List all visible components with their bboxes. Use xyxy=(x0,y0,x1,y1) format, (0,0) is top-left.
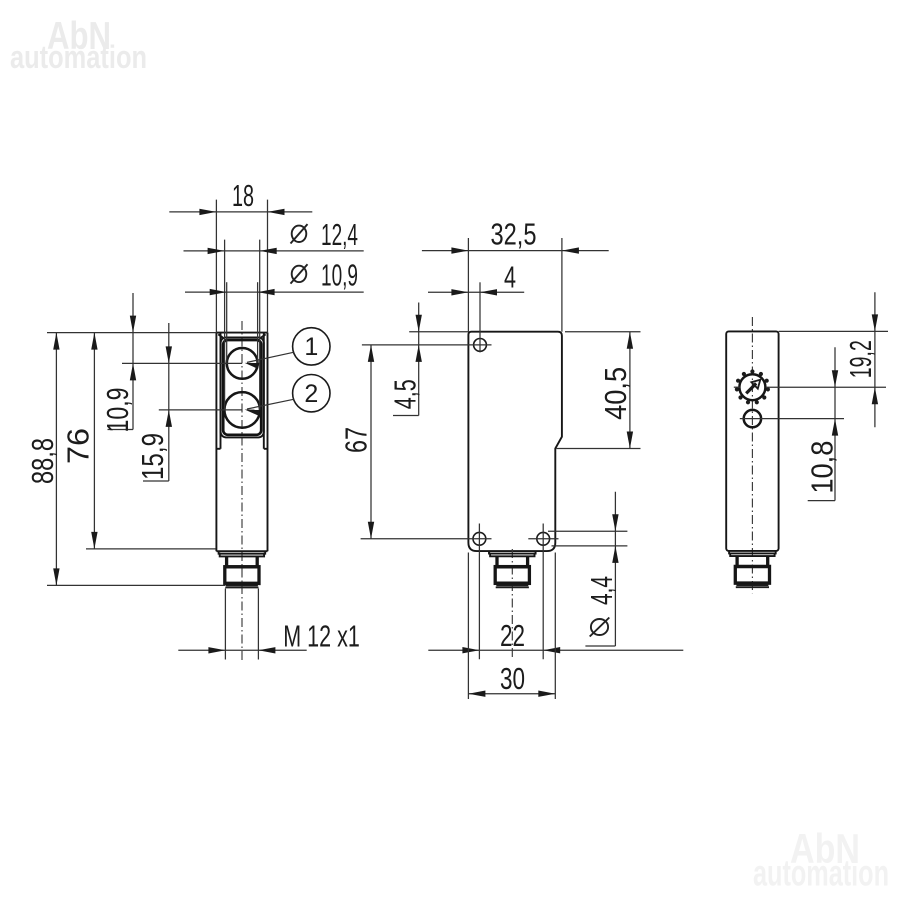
mounting hole bottom-right xyxy=(537,532,550,545)
LED centre extension line xyxy=(740,418,844,420)
dimension 19,2 xyxy=(843,292,878,427)
side view body outline xyxy=(468,332,562,551)
dimension 88,8 xyxy=(25,333,60,586)
svg-text:2: 2 xyxy=(304,380,318,408)
left view centerline xyxy=(241,321,243,662)
dimension 40,5 xyxy=(598,332,633,449)
dia 4,4 extension lines xyxy=(548,531,627,546)
svg-text:12,4: 12,4 xyxy=(321,217,358,252)
lens cover outer frame xyxy=(221,337,264,437)
svg-text:40,5: 40,5 xyxy=(598,367,633,420)
lens1 centre extension line xyxy=(122,362,242,364)
mounting hole bottom-right crosshair xyxy=(528,524,558,660)
svg-text:4: 4 xyxy=(504,260,516,295)
left view bottom connector M12 xyxy=(219,551,266,587)
svg-text:18: 18 xyxy=(232,178,254,213)
svg-text:automation: automation xyxy=(10,39,147,75)
dimension dia 4,4 xyxy=(584,492,619,646)
76 bottom extension line xyxy=(86,548,216,550)
40,5 top extension line xyxy=(565,331,641,333)
svg-text:76: 76 xyxy=(61,428,96,464)
left view top corner chamfer marks xyxy=(218,334,265,337)
dimension 18 xyxy=(169,178,312,215)
M12 thread extension lines xyxy=(225,589,258,660)
rear view centerline xyxy=(751,317,753,593)
extension lines dia 12.4 xyxy=(225,240,260,410)
dimension dia 10,9 xyxy=(185,258,364,296)
lens 2 (lower) circle xyxy=(224,392,260,428)
left view lens recess edges xyxy=(217,333,267,449)
svg-text:15,9: 15,9 xyxy=(135,433,170,480)
dimension 15,9 vertical xyxy=(135,323,172,481)
dimension 10,8 xyxy=(805,347,840,500)
svg-text:32,5: 32,5 xyxy=(491,217,537,252)
extension lines width 18 xyxy=(216,200,267,333)
mounting hole top crosshair xyxy=(362,282,492,352)
extension lines width 32,5 xyxy=(468,238,562,332)
mounting hole bottom-left xyxy=(473,532,486,545)
svg-text:4,4: 4,4 xyxy=(584,576,619,605)
dimension 30 xyxy=(468,661,555,697)
mounting hole bottom-left crosshair xyxy=(361,524,492,660)
rear top edge extension line xyxy=(779,330,888,332)
svg-text:automation: automation xyxy=(753,853,889,894)
watermark top-left xyxy=(10,15,147,75)
rear view body outline xyxy=(726,331,778,551)
dimension 4 xyxy=(428,260,524,296)
svg-text:19,2: 19,2 xyxy=(843,340,878,378)
svg-text:10,9: 10,9 xyxy=(100,388,135,433)
balloon 2 leader xyxy=(245,399,294,415)
svg-text:1: 1 xyxy=(304,333,318,361)
potentiometer adjuster xyxy=(735,369,770,404)
top edge extension line xyxy=(47,332,216,334)
dimension 76 xyxy=(61,333,98,549)
dimension 67 xyxy=(339,345,375,539)
dimension 32,5 xyxy=(422,217,609,254)
dimension 4,5 xyxy=(388,303,423,416)
svg-text:67: 67 xyxy=(339,427,374,453)
lens cover inner thick frame xyxy=(223,340,261,435)
svg-text:88,8: 88,8 xyxy=(25,438,60,484)
mounting hole top xyxy=(474,339,487,352)
potentiometer centre extension line xyxy=(734,386,886,388)
40,5 bottom extension line xyxy=(557,448,641,450)
4,5 top extension line xyxy=(409,331,468,333)
balloon 1 leader xyxy=(245,352,294,369)
88,8 bottom extension line xyxy=(47,584,225,586)
dimension 22 xyxy=(428,618,683,653)
dimension 10,9 vertical xyxy=(100,293,136,433)
svg-text:22: 22 xyxy=(500,618,525,653)
dimension dia 12,4 xyxy=(184,217,364,254)
svg-text:30: 30 xyxy=(500,661,525,696)
30 extension lines xyxy=(468,553,555,700)
left view body outline xyxy=(216,333,267,552)
side view connector M12 xyxy=(489,551,536,587)
lens2 centre extension line xyxy=(159,409,242,411)
svg-text:4,5: 4,5 xyxy=(388,379,423,409)
lens 1 (upper) circle xyxy=(227,348,258,379)
balloon 1 marker xyxy=(293,328,330,365)
balloon 2 marker xyxy=(293,375,330,412)
svg-text:M 12 x1: M 12 x1 xyxy=(283,619,360,654)
extension lines dia 10.9 xyxy=(227,282,258,363)
side view connector centerline xyxy=(511,549,513,660)
svg-text:10,9: 10,9 xyxy=(321,258,358,293)
rear view connector M12 xyxy=(729,551,776,587)
indicator LED xyxy=(744,410,761,427)
potentiometer slot arrow xyxy=(746,380,760,394)
svg-text:10,8: 10,8 xyxy=(805,441,840,494)
dimension M 12 x1 xyxy=(178,619,359,654)
watermark bottom-right xyxy=(753,825,889,894)
